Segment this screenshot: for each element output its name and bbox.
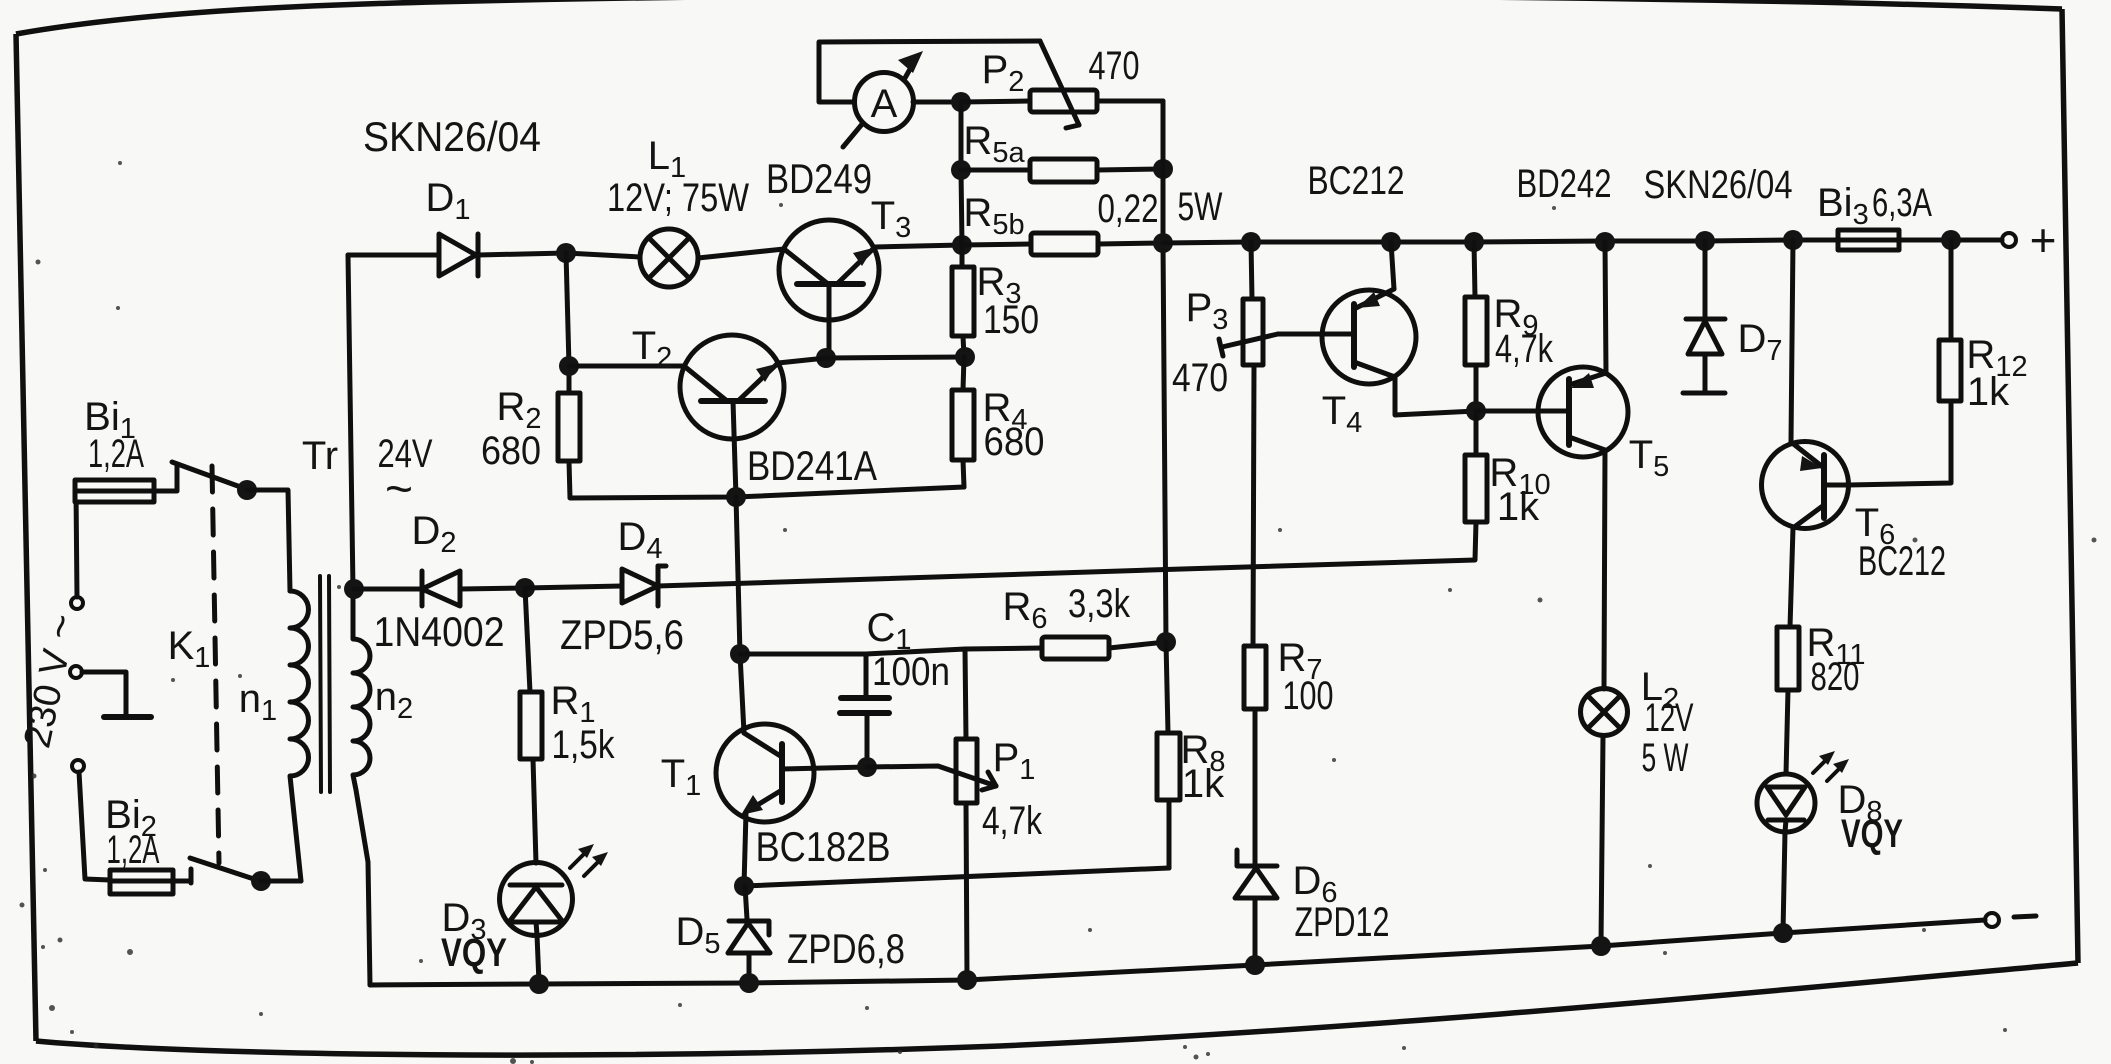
label P1 value 4,7k <box>982 799 1043 843</box>
label T2 <box>632 324 673 374</box>
label T4 <box>1322 389 1363 439</box>
svg-text:150: 150 <box>983 298 1039 342</box>
label L2 value 12V <box>1645 696 1694 740</box>
wire: junction to T2 collector <box>569 364 684 369</box>
label R5b <box>963 191 1024 241</box>
svg-text:R1: R1 <box>550 679 595 729</box>
lamp L2 <box>1581 689 1628 736</box>
wire: R8 bottom to T1 emitter <box>744 868 1169 886</box>
node: T1 emitter / D5 top <box>734 876 754 896</box>
transistor T5 <box>1538 367 1628 457</box>
label R5 value 5W <box>1178 185 1223 229</box>
svg-text:C1: C1 <box>866 606 911 656</box>
svg-text:D5: D5 <box>675 910 720 960</box>
ground: earth bar <box>104 714 151 720</box>
label + <box>2030 214 2057 266</box>
wire: T1 emitter down <box>744 812 746 886</box>
diode D7 <box>1683 241 1725 393</box>
node: ammeter / P2 left <box>951 92 971 112</box>
svg-text:T2: T2 <box>632 324 673 374</box>
label L1 <box>648 134 686 184</box>
svg-text:ZPD5,6: ZPD5,6 <box>560 611 684 658</box>
label R11 <box>1807 621 1866 671</box>
label R4 <box>982 386 1027 436</box>
svg-text:R2: R2 <box>496 385 541 435</box>
label ~ (secondary AC) <box>385 463 413 516</box>
wire: rail to T6 emitter <box>1791 240 1793 442</box>
svg-text:BD242: BD242 <box>1517 162 1612 206</box>
node: R6 right column <box>1156 632 1176 652</box>
ammeter pointer arrow <box>843 51 923 147</box>
label R9 <box>1493 292 1538 342</box>
transistor T6 <box>1762 442 1849 529</box>
wire: rail left segment to D1 <box>348 253 439 258</box>
svg-text:1k: 1k <box>1497 485 1540 529</box>
svg-text:230 V ~: 230 V ~ <box>11 609 85 751</box>
label SKN26/04 (D7) <box>1644 163 1793 207</box>
fuse Bi3 <box>1838 230 1899 250</box>
svg-text:6,3A: 6,3A <box>1872 181 1932 225</box>
wire: T5 base <box>1476 409 1569 414</box>
wire: D1 to L1 junction <box>478 253 640 257</box>
svg-text:VQY: VQY <box>441 931 507 975</box>
label L2 value 5W <box>1642 736 1689 780</box>
svg-text:T5: T5 <box>1629 433 1670 483</box>
label R2 <box>496 385 541 435</box>
label D7 <box>1737 317 1782 367</box>
label D2 <box>411 509 456 559</box>
node: D1 cathode / R2 column junction <box>556 243 576 263</box>
wire: + rail right section <box>1163 240 1838 243</box>
node: rail T6/Bi3 <box>1783 230 1803 250</box>
node: rail T4 emitter <box>1381 232 1401 252</box>
svg-text:K1: K1 <box>168 624 211 674</box>
node: C1 branch <box>730 644 750 664</box>
resistor R7 <box>1244 646 1266 864</box>
label R1 value 1,5k <box>552 723 616 767</box>
wire: rail node to R5b <box>962 244 1031 245</box>
label R5a <box>963 119 1025 169</box>
svg-text:n1: n1 <box>239 677 277 727</box>
wire: T6 base to R12 bottom <box>1848 401 1951 485</box>
transformer Tr primary winding n1 <box>290 591 309 881</box>
wire: T5 emitter to rail <box>1605 242 1606 373</box>
node: D6 bottom on rail <box>1245 955 1265 975</box>
LED D3 light arrows <box>570 844 608 876</box>
node: rail D7 top <box>1695 231 1715 251</box>
wire: node to R5a <box>961 168 1030 173</box>
terminal: mains N input <box>72 760 84 772</box>
svg-text:T3: T3 <box>871 194 912 244</box>
wire: C1 top branch <box>740 652 866 657</box>
label L2 <box>1641 665 1679 715</box>
svg-text:680: 680 <box>984 420 1045 464</box>
switch K1 upper pole blade <box>172 462 246 489</box>
label C1 value 100n <box>872 650 950 694</box>
transformer secondary winding n2 <box>353 589 370 985</box>
label 1N4002 (D2) <box>374 608 505 655</box>
svg-text:1k: 1k <box>1967 370 2010 414</box>
svg-text:R5a: R5a <box>963 119 1025 169</box>
transformer core <box>320 576 330 792</box>
svg-text:BC212: BC212 <box>1308 159 1405 203</box>
wire: right column down <box>1163 101 1166 642</box>
wire: Bi3 to + terminal <box>1899 238 2002 243</box>
label Bi3 6,3A <box>1817 181 1932 231</box>
label D6 <box>1292 859 1337 909</box>
svg-text:D1: D1 <box>425 176 470 226</box>
capacitor C1 <box>840 654 889 766</box>
wire: upper pole to transformer primary top <box>247 490 290 591</box>
switch K1 lower pole blade <box>190 858 260 881</box>
switch K1 coupling dashed line <box>212 466 219 863</box>
svg-text:A: A <box>871 82 898 126</box>
resistor R8 <box>1157 642 1180 868</box>
svg-text:D2: D2 <box>411 509 456 559</box>
svg-text:5W: 5W <box>1178 185 1223 229</box>
wire: D3 to bottom rail <box>537 935 539 983</box>
wire: secondary top to D1 column <box>348 255 353 589</box>
svg-text:1,2A: 1,2A <box>88 432 144 476</box>
label D8 <box>1837 778 1882 828</box>
svg-text:VQY: VQY <box>1841 812 1903 856</box>
node: D3 bottom <box>529 974 549 994</box>
label Tr <box>302 434 338 478</box>
resistor R5b <box>1031 233 1098 255</box>
terminal: mains L input <box>71 597 83 609</box>
zener diode D6 <box>1235 850 1277 964</box>
diode D1 <box>439 234 478 276</box>
svg-text:+: + <box>2030 214 2057 266</box>
svg-text:1k: 1k <box>1182 762 1225 806</box>
svg-text:820: 820 <box>1811 655 1860 699</box>
transistor T3 <box>779 220 879 357</box>
label P1 <box>993 736 1036 786</box>
svg-text:T4: T4 <box>1322 389 1363 439</box>
label ZPD12 (D6) <box>1295 898 1390 945</box>
svg-text:5 W: 5 W <box>1642 736 1689 780</box>
svg-text:4,7k: 4,7k <box>982 799 1043 843</box>
label Bi1 <box>84 395 136 445</box>
label R12 value 1k <box>1967 370 2010 414</box>
diode D4 <box>525 566 666 606</box>
svg-text:P1: P1 <box>993 736 1036 786</box>
label R6 value 3,3k <box>1068 582 1131 626</box>
label K1 <box>168 624 211 674</box>
label R9 value 4,7k <box>1495 327 1554 371</box>
label R3 value 150 <box>983 298 1039 342</box>
svg-text:4,7k: 4,7k <box>1495 327 1554 371</box>
node: D8 bottom on rail <box>1773 923 1793 943</box>
LED D8 light arrows <box>1813 751 1849 781</box>
svg-text:100n: 100n <box>872 650 950 694</box>
transistor T2 <box>680 335 784 497</box>
label P2 <box>982 48 1025 98</box>
svg-text:BC212: BC212 <box>1858 537 1946 584</box>
resistor R9 <box>1465 242 1487 411</box>
svg-text:SKN26/04: SKN26/04 <box>1644 163 1793 207</box>
label BD249 (T3) <box>766 155 872 202</box>
svg-text:R5b: R5b <box>963 191 1024 241</box>
svg-text:T1: T1 <box>661 752 702 802</box>
label Bi1 value 1,2A <box>88 432 144 476</box>
label ZPD5,6 (D4) <box>560 611 684 658</box>
wire: P3 bottom to R7 <box>1253 365 1254 646</box>
svg-text:n2: n2 <box>375 675 413 725</box>
label n1 <box>239 677 277 727</box>
label T3 <box>871 194 912 244</box>
svg-text:P3: P3 <box>1186 286 1229 336</box>
node: R3/R4 junction <box>955 347 975 367</box>
wire: R2 bottom to T2 base to R4 bottom <box>569 461 964 498</box>
wire: D8 to bottom rail <box>1783 832 1785 932</box>
resistor R3 <box>952 245 974 357</box>
fuse Bi1 <box>75 466 177 502</box>
label R10 <box>1489 451 1550 501</box>
label R8 <box>1180 728 1225 778</box>
wire: T2 base column down to T1 collector <box>736 497 744 733</box>
label Bi2 <box>105 793 157 843</box>
LED D3 <box>500 863 573 936</box>
wire: L terminal to fuse Bi1 <box>76 491 77 597</box>
node: secondary top / D2 junction <box>344 579 364 599</box>
node: R12 top on rail <box>1941 230 1961 250</box>
resistor R5a <box>1030 159 1097 182</box>
wire: L2 to bottom rail <box>1601 736 1603 945</box>
label R7 <box>1277 636 1322 686</box>
label VQY (D3) <box>441 931 507 975</box>
wire: T4 emitter to rail <box>1391 242 1394 289</box>
wire: R5a right to column <box>1097 169 1163 170</box>
wire: T2 emitter to T3 base to R3/R4 junction <box>778 357 965 363</box>
label D5 <box>675 910 720 960</box>
wire: R2/D1 column <box>566 253 569 393</box>
node: R5a right <box>1153 159 1173 179</box>
label D4 <box>617 515 662 565</box>
label VQY (D8) <box>1841 812 1903 856</box>
svg-text:12V: 12V <box>1645 696 1694 740</box>
svg-text:ZPD12: ZPD12 <box>1295 898 1390 945</box>
resistor R6 <box>965 637 1166 659</box>
wire: left sense column <box>961 102 962 245</box>
ammeter A <box>855 73 914 132</box>
svg-text:680: 680 <box>481 429 541 473</box>
label P3 <box>1186 286 1229 336</box>
wire: lower pole to transformer primary bottom <box>261 879 301 884</box>
wire: T3 emitter to rail node <box>875 245 962 247</box>
resistor R4 <box>952 357 974 487</box>
svg-text:1N4002: 1N4002 <box>374 608 505 655</box>
label L1 value 12V; 75W <box>607 176 749 220</box>
label R12 <box>1966 333 2027 383</box>
wire: bottom rail <box>370 920 1985 985</box>
resistor R1 <box>520 588 542 863</box>
terminal: - output <box>1985 913 1999 927</box>
terminal: + output <box>2002 233 2016 247</box>
svg-text:~: ~ <box>385 463 413 516</box>
label R11 value 820 <box>1811 655 1860 699</box>
label R7 value 100 <box>1283 674 1334 718</box>
label R5 value 0,22 <box>1098 187 1159 231</box>
label SKN26/04 (D1) <box>363 113 541 160</box>
fuse Bi2 <box>110 869 191 894</box>
wire: R5b right to rail <box>1098 243 1163 244</box>
label BC212 (T6) <box>1858 537 1946 584</box>
wire: D4 to R10 bottom <box>658 522 1476 586</box>
label P3 value 470 <box>1172 356 1228 400</box>
label n2 <box>375 675 413 725</box>
node: R5b right on rail <box>1153 233 1173 253</box>
LED D8 <box>1757 774 1815 832</box>
node: rail P3 column <box>1241 232 1261 252</box>
node: rail / R5b left / R3 top <box>952 235 972 255</box>
svg-text:D7: D7 <box>1737 317 1782 367</box>
label R2 value 680 <box>481 429 541 473</box>
svg-text:Tr: Tr <box>302 434 338 478</box>
svg-text:Bi3: Bi3 <box>1817 181 1869 231</box>
wire: P2 right to right column <box>1097 101 1163 169</box>
label R8 value 1k <box>1182 762 1225 806</box>
node: T3 base junction <box>816 348 836 368</box>
wire: T6 collector to R11 <box>1790 528 1793 627</box>
svg-text:R6: R6 <box>1002 585 1047 635</box>
svg-text:0,22: 0,22 <box>1098 187 1159 231</box>
node: T2 base junction bottom <box>726 487 746 507</box>
svg-text:100: 100 <box>1283 674 1334 718</box>
svg-text:ZPD6,8: ZPD6,8 <box>787 925 905 972</box>
lamp L1 <box>640 229 698 287</box>
svg-text:1,2A: 1,2A <box>107 828 160 872</box>
svg-text:470: 470 <box>1172 356 1228 400</box>
transistor T1 <box>716 724 867 822</box>
svg-text:BD241A: BD241A <box>747 442 877 489</box>
label ZPD6,8 (D5) <box>787 925 905 972</box>
node: rail T5 emitter <box>1595 232 1615 252</box>
wire: R6/P1 top branch <box>866 649 966 739</box>
node: L2 bottom on rail <box>1591 936 1611 956</box>
node: R5a left <box>951 160 971 180</box>
wire: T5 collector to L2 <box>1604 450 1605 689</box>
potentiometer P1 <box>867 739 996 803</box>
potentiometer P2 <box>1030 41 1097 128</box>
label R3 <box>976 260 1021 310</box>
zener diode D5 <box>728 886 770 982</box>
label P2 value 470 <box>1089 44 1140 88</box>
svg-text:BD249: BD249 <box>766 155 872 202</box>
resistor R10 <box>1465 411 1487 522</box>
node: P1 bottom on rail <box>957 970 977 990</box>
wire: ammeter to P2 node <box>913 100 961 105</box>
wire: P1 bottom to bottom rail <box>966 803 967 979</box>
label BD241A (T2) <box>747 442 877 489</box>
svg-text:P2: P2 <box>982 48 1025 98</box>
wire: ammeter loop <box>819 41 1040 102</box>
node: T1 base / C1 bottom <box>857 757 877 777</box>
junction: upper pole to primary <box>237 480 257 500</box>
junction: lower pole to primary <box>251 871 271 891</box>
label D1 <box>425 176 470 226</box>
label - <box>2014 916 2036 917</box>
svg-text:SKN26/04: SKN26/04 <box>363 113 541 160</box>
label T6 <box>1855 501 1896 551</box>
potentiometer P3 <box>1219 242 1278 365</box>
label BC182B (T1) <box>756 823 891 870</box>
svg-text:D4: D4 <box>617 515 662 565</box>
node: rail R9 top <box>1464 232 1484 252</box>
svg-text:12V; 75W: 12V; 75W <box>607 176 749 220</box>
label T1 <box>661 752 702 802</box>
resistor R2 <box>558 393 580 461</box>
label D3 <box>441 896 486 946</box>
label Bi2 value 1,2A <box>107 828 160 872</box>
resistor R11 <box>1777 627 1799 774</box>
wire: N terminal to fuse Bi2 <box>79 772 110 880</box>
label 230 V ~ <box>11 609 85 751</box>
wire: L1 to T3 collector <box>698 249 784 258</box>
svg-text:3,3k: 3,3k <box>1068 582 1131 626</box>
wire: P3 wiper to T4 base <box>1278 332 1353 337</box>
label R4 value 680 <box>984 420 1045 464</box>
label R10 value 1k <box>1497 485 1540 529</box>
svg-text:BC182B: BC182B <box>756 823 891 870</box>
label R6 <box>1002 585 1047 635</box>
terminal: mains PE input <box>70 666 82 678</box>
node: R9/R10/T5 base <box>1466 401 1486 421</box>
diode D2 <box>354 571 525 606</box>
label R1 <box>550 679 595 729</box>
svg-text:470: 470 <box>1089 44 1140 88</box>
node: T2 collector junction <box>559 356 579 376</box>
label T5 <box>1629 433 1670 483</box>
label BD242 (T5) <box>1517 162 1612 206</box>
node: D2/D4/R1 junction <box>515 578 535 598</box>
svg-text:1,5k: 1,5k <box>552 723 616 767</box>
wire: T4 collector to R9/R10 node <box>1395 377 1476 415</box>
resistor R12 <box>1939 240 1961 401</box>
wire: PE terminal to earth stub <box>82 672 126 714</box>
label C1 <box>866 606 911 656</box>
label BC212 (T4) <box>1308 159 1405 203</box>
wire: node to P2 <box>961 101 1030 102</box>
transistor T4 <box>1322 289 1416 384</box>
label 24V <box>378 432 433 476</box>
node: D5 bottom on rail <box>739 973 759 993</box>
